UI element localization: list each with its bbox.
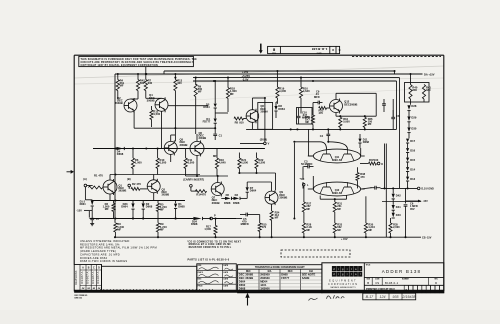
svg-text:D664: D664 — [239, 280, 246, 284]
svg-text:1,500: 1,500 — [258, 161, 265, 165]
svg-text:PROD: PROD — [198, 285, 204, 287]
svg-text:D668: D668 — [233, 201, 240, 205]
svg-text:MF: MF — [105, 207, 109, 211]
svg-text:1,000: 1,000 — [135, 161, 142, 165]
svg-text:MF: MF — [160, 227, 164, 231]
svg-text:D6: D6 — [226, 193, 230, 197]
svg-text:(CARRY INSERT): (CARRY INSERT) — [183, 178, 204, 182]
svg-text:470: 470 — [201, 192, 206, 196]
svg-text:MF: MF — [230, 92, 234, 96]
svg-text:8/14/67 A: 8/14/67 A — [86, 272, 90, 284]
svg-text:3009B: 3009B — [279, 195, 287, 199]
svg-text:100: 100 — [374, 158, 379, 162]
svg-text:D13: D13 — [410, 177, 415, 181]
svg-text:PARTS LIST IS A-PL-B138-0-0: PARTS LIST IS A-PL-B138-0-0 — [188, 258, 230, 261]
svg-text:2N3639: 2N3639 — [260, 276, 270, 280]
svg-text:D664: D664 — [121, 204, 128, 208]
svg-text:D16: D16 — [410, 149, 415, 153]
svg-text:4,640: 4,640 — [219, 161, 226, 165]
svg-text:+ 15V: + 15V — [341, 238, 348, 241]
svg-text:MD64: MD64 — [260, 280, 268, 284]
svg-text:-2.0V: -2.0V — [242, 78, 249, 82]
svg-text:NUMBER: NUMBER — [402, 279, 410, 281]
svg-text:MF: MF — [368, 228, 372, 232]
svg-text:910: 910 — [239, 120, 244, 124]
svg-text:CIRCUITS ARE PROPRIETARY IN NA: CIRCUITS ARE PROPRIETARY IN NATURE AND S… — [81, 61, 195, 64]
svg-text:PRINTED CIRCUIT REV.: PRINTED CIRCUIT REV. — [366, 287, 395, 291]
svg-text:D664: D664 — [278, 107, 285, 111]
svg-text:5,000: 5,000 — [343, 120, 350, 124]
svg-text:MF: MF — [368, 122, 372, 126]
svg-text:K: K — [381, 162, 383, 166]
svg-text:FD777: FD777 — [281, 276, 290, 280]
svg-text:4,640: 4,640 — [303, 89, 310, 93]
svg-text:3639B: 3639B — [162, 193, 170, 197]
svg-text:FD777: FD777 — [203, 120, 211, 124]
svg-text:D668: D668 — [117, 152, 124, 156]
svg-text:470: 470 — [136, 182, 141, 186]
svg-text:D15: D15 — [410, 158, 415, 162]
svg-text:1,500: 1,500 — [153, 112, 160, 116]
svg-text:RESISTORS ARE 1/4W; 5%: RESISTORS ARE 1/4W; 5% — [80, 242, 120, 246]
svg-text:*CO: *CO — [300, 178, 305, 181]
svg-text:CB -15V: CB -15V — [422, 236, 432, 239]
svg-text:JW: JW — [92, 288, 95, 290]
svg-text:MF: MF — [306, 228, 310, 232]
svg-text:MF: MF — [337, 228, 341, 232]
svg-text:1,500: 1,500 — [160, 161, 167, 165]
svg-text:MF: MF — [305, 120, 309, 124]
svg-text:MF: MF — [120, 84, 124, 88]
svg-text:MFD: MFD — [314, 95, 320, 99]
svg-text:B: B — [406, 288, 408, 292]
svg-text:COPYRIGHT 1967 BY DIGITAL EQUI: COPYRIGHT 1967 BY DIGITAL EQUIPMENT CORP… — [81, 64, 159, 67]
svg-text:CAPACITORS ARE .01 MFD: CAPACITORS ARE .01 MFD — [80, 252, 120, 256]
svg-text:3009A: 3009A — [260, 109, 268, 113]
svg-text:3639B: 3639B — [118, 189, 126, 193]
svg-text:D664: D664 — [250, 188, 257, 192]
svg-text:C4: C4 — [320, 134, 324, 138]
svg-text:D17: D17 — [410, 139, 415, 143]
svg-text:330: 330 — [426, 88, 431, 92]
svg-text:2N3009: 2N3009 — [260, 273, 270, 277]
svg-text:470: 470 — [360, 175, 365, 179]
svg-text:D668: D668 — [178, 205, 185, 209]
svg-text:CHK’D: CHK’D — [198, 272, 204, 274]
svg-text:C8: C8 — [396, 114, 400, 118]
svg-text:124: 124 — [380, 295, 386, 299]
svg-text:-15V: -15V — [76, 208, 82, 212]
svg-text:3009B: 3009B — [147, 98, 155, 102]
svg-text:3009B: 3009B — [212, 201, 220, 205]
svg-text:SAME: SAME — [302, 276, 310, 280]
svg-text:JW: JW — [87, 288, 90, 290]
svg-text:D668: D668 — [191, 222, 198, 226]
svg-text:D3: D3 — [235, 193, 239, 197]
svg-text:1,000: 1,000 — [279, 89, 286, 93]
svg-text:MF: MF — [306, 207, 310, 211]
svg-text:330: 330 — [412, 88, 417, 92]
svg-text:935: 935 — [393, 295, 399, 299]
svg-text:B-17: B-17 — [366, 295, 375, 299]
svg-text:D668: D668 — [224, 201, 231, 205]
svg-text:D668: D668 — [363, 140, 370, 144]
svg-text:SEE NOTE: SEE NOTE — [302, 273, 316, 277]
svg-text:RESISTOR FROM PIN K TO PIN L: RESISTOR FROM PIN K TO PIN L — [189, 247, 232, 249]
svg-text:DEC-B: DEC-B — [333, 192, 341, 195]
svg-text:(SUM): (SUM) — [260, 138, 267, 141]
svg-text:-15V: -15V — [423, 200, 429, 203]
svg-text:MF: MF — [213, 154, 217, 158]
svg-text:D: D — [435, 281, 437, 285]
svg-text:JW: JW — [98, 288, 101, 290]
svg-text:MF: MF — [198, 90, 202, 94]
svg-text:4JX1: 4JX1 — [260, 283, 267, 287]
svg-text:D: D — [332, 48, 334, 51]
svg-text:2,000: 2,000 — [393, 225, 400, 229]
svg-text:D28: D28 — [411, 104, 416, 108]
svg-text:JW: JW — [82, 288, 85, 290]
svg-text:D41: D41 — [396, 205, 401, 209]
svg-text:8/14/67 A: 8/14/67 A — [96, 272, 100, 284]
svg-text:R8: R8 — [235, 120, 239, 124]
svg-text:DEC3009B: DEC3009B — [344, 103, 357, 107]
svg-text:THIS SCHEMATIC IS FURNISHED ON: THIS SCHEMATIC IS FURNISHED ONLY FOR TES… — [81, 58, 198, 61]
svg-text:MF: MF — [117, 227, 121, 231]
svg-text:D668 D-TWO 1N3606 IN SERIES: D668 D-TWO 1N3606 IN SERIES — [80, 259, 127, 263]
svg-text:C7: C7 — [96, 217, 100, 221]
svg-text:DEC: DEC — [288, 271, 293, 273]
svg-text:3639B: 3639B — [115, 101, 123, 105]
svg-text:3009B: 3009B — [199, 136, 207, 140]
svg-text:R2: R2 — [132, 182, 136, 186]
svg-text:470: 470 — [319, 111, 324, 115]
svg-text:(A): (A) — [83, 177, 87, 181]
svg-text:470: 470 — [98, 174, 103, 178]
svg-text:MF: MF — [275, 216, 279, 220]
svg-text:MMFD: MMFD — [241, 222, 249, 226]
svg-text:R1: R1 — [94, 174, 98, 178]
svg-text:8/14/67 A: 8/14/67 A — [91, 272, 95, 284]
svg-text:3009B: 3009B — [180, 143, 188, 147]
svg-text:1,500: 1,500 — [241, 161, 248, 165]
svg-text:580: 580 — [140, 81, 145, 85]
svg-text:D30: D30 — [411, 126, 416, 130]
svg-text:MF: MF — [160, 208, 164, 212]
svg-text:(B): (B) — [127, 177, 131, 181]
svg-text:CS: CS — [375, 281, 379, 285]
svg-text:35V: 35V — [410, 207, 415, 211]
svg-text:CORPORATION: CORPORATION — [328, 283, 358, 286]
svg-text:C1: C1 — [219, 133, 223, 137]
svg-text:1-D-B138: 1-D-B138 — [312, 47, 328, 51]
svg-text:ADDER B138: ADDER B138 — [382, 269, 422, 274]
svg-text:MODULE BY A 100Ω 1/8W 1% MF: MODULE BY A 100Ω 1/8W 1% MF — [189, 243, 232, 246]
svg-text:DA +15V: DA +15V — [424, 72, 435, 76]
svg-text:D664: D664 — [80, 203, 87, 206]
svg-text:+5.25V: +5.25V — [242, 74, 251, 78]
svg-text:D662: D662 — [239, 283, 246, 287]
svg-text:D14: D14 — [410, 168, 415, 172]
svg-text:330: 330 — [177, 81, 182, 85]
svg-text:DEC: DEC — [246, 271, 251, 273]
svg-text:1N3606: 1N3606 — [260, 287, 270, 291]
svg-text:B138-0-1: B138-0-1 — [385, 281, 399, 285]
svg-text:REVISIONS: REVISIONS — [74, 270, 78, 284]
svg-text:TRANSISTOR & DIODE CONVERSION: TRANSISTOR & DIODE CONVERSION CHART — [255, 266, 305, 269]
svg-text:470: 470 — [262, 225, 267, 229]
svg-text:EIA: EIA — [309, 270, 313, 273]
svg-text:D,1/U GND: D,1/U GND — [421, 188, 434, 191]
svg-text:D40: D40 — [396, 213, 401, 217]
svg-text:3,000: 3,000 — [188, 161, 195, 165]
svg-text:D29: D29 — [411, 115, 416, 119]
svg-text:+15V: +15V — [242, 70, 249, 74]
svg-text:DEC-B: DEC-B — [333, 159, 341, 162]
svg-text:D668: D668 — [146, 204, 153, 208]
svg-text:D668: D668 — [239, 287, 246, 291]
svg-text:DEC 3639B: DEC 3639B — [239, 276, 253, 280]
svg-text:330: 330 — [148, 81, 153, 85]
svg-text:DRB 102: DRB 102 — [75, 297, 82, 299]
svg-text:DEC 3009B: DEC 3009B — [239, 273, 253, 277]
svg-text:D42: D42 — [396, 193, 401, 197]
svg-text:B: B — [367, 281, 369, 285]
svg-text:2/15#38: 2/15#38 — [401, 295, 415, 299]
svg-text:B: B — [338, 48, 340, 51]
svg-text:EIA: EIA — [268, 270, 272, 273]
svg-text:1,500: 1,500 — [204, 227, 211, 231]
svg-text:MF RESISTORS ARE METAL FILM 1/: MF RESISTORS ARE METAL FILM 1/8W 1% 100 … — [80, 246, 157, 250]
svg-text:D668: D668 — [281, 273, 288, 277]
svg-text:56 MMFD: 56 MMFD — [301, 162, 313, 166]
svg-text:MF: MF — [337, 207, 341, 211]
svg-text:8/14/67 A: 8/14/67 A — [80, 272, 84, 284]
